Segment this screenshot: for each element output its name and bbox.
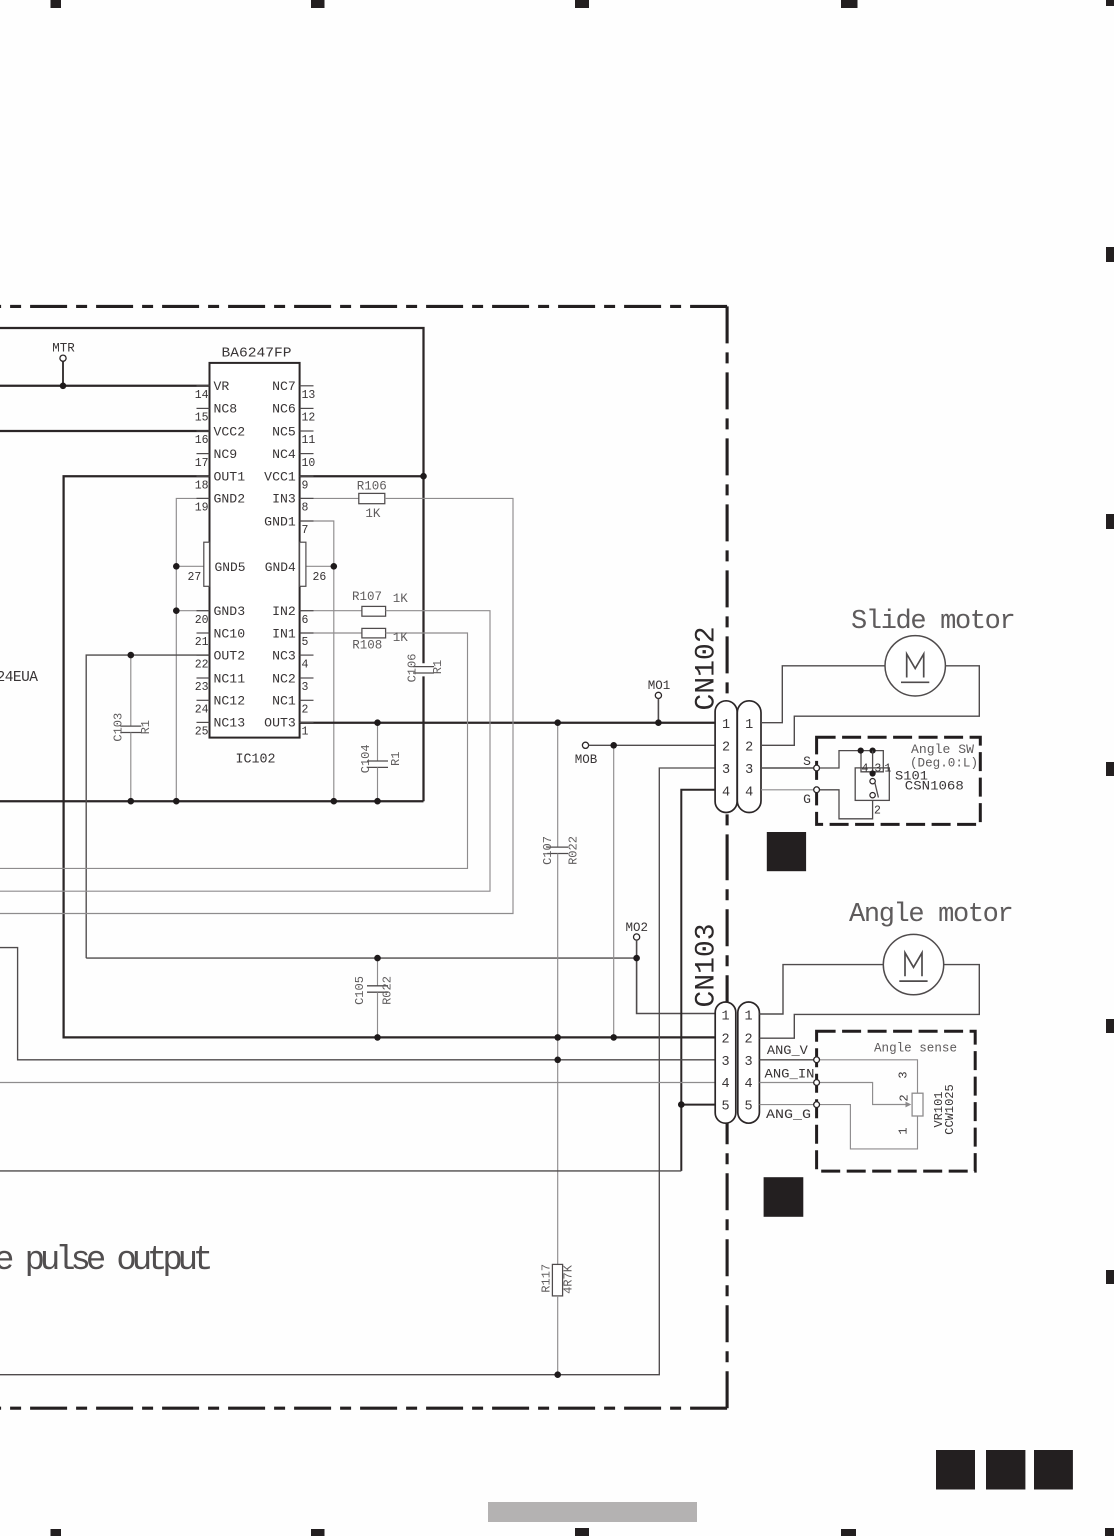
svg-text:R022: R022 [566,836,580,865]
svg-text:14: 14 [195,389,209,402]
junction C104 bottom on ground rail [374,798,381,805]
svg-text:2: 2 [874,805,881,818]
svg-text:R1: R1 [389,752,403,766]
wire MTR net from left edge to IC pin 14 VR [0,385,210,387]
svg-text:NC5: NC5 [272,424,296,439]
black marker square near CN103 [764,1177,804,1217]
registration mark right edge 4 [1106,1019,1114,1033]
svg-text:2: 2 [302,704,309,717]
dashed enclosure Angle sense [817,1031,976,1171]
junction C107 top on OUT3 [554,719,561,726]
pin stub 15 NC8 [197,407,210,409]
wire C106 bottom to ground rail [422,676,424,801]
svg-text:C107: C107 [541,836,555,865]
motor M102 angle motor symbol [883,934,943,994]
svg-text:1: 1 [896,1127,910,1134]
wire CN102 pin 4 net down to CN103 pin 5 [681,790,715,1171]
pin stub 8 IN3 [300,497,314,499]
node ANG_IN terminal circle [814,1080,820,1086]
wire OUT2 net: IC pin 22 left and down [86,655,209,958]
svg-text:1: 1 [722,1009,730,1024]
wire MO2 stub [636,940,638,958]
svg-text:7: 7 [302,524,309,537]
motor M101 slide motor symbol [885,636,945,696]
svg-text:4: 4 [745,785,753,800]
svg-text:IN3: IN3 [272,492,296,507]
wire MTR stub [62,361,64,386]
pin stub 24 NC12 [197,699,210,701]
svg-text:NC11: NC11 [214,671,246,686]
pin stub 11 NC5 [300,430,314,432]
svg-text:10: 10 [302,457,316,470]
connector CN102 left shell [715,701,737,813]
svg-text:3: 3 [874,763,881,776]
junction MO2 on OUT2 run [633,955,640,962]
registration mark top 3 [575,0,589,8]
connector CN103 left shell [715,1002,736,1123]
wire OUT2 net horizontal run to MO2 [86,957,636,959]
wire GND2/GND5/GND3 vertical to ground rail [176,498,209,801]
svg-text:NC1: NC1 [272,694,296,709]
dash-dot boundary of motor drive unit [0,305,727,308]
svg-text:20: 20 [195,614,209,627]
registration mark right edge 2 [1106,514,1114,529]
registration mark right edge 3 [1106,762,1114,776]
svg-text:1: 1 [884,763,891,776]
svg-text:22: 22 [195,658,209,671]
capacitor C104 [367,723,388,802]
svg-text:e pulse output: e pulse output [0,1242,210,1280]
svg-text:IN1: IN1 [272,626,296,641]
svg-text:13: 13 [302,389,316,402]
svg-text:6: 6 [302,614,309,627]
junction MOB vertical on OUT1 [610,1034,617,1041]
wire CN103 pin4 to ANG_IN terminal [759,1082,816,1084]
wire OUT1 net: IC pin 18 left, down, and across to CN103 pin 2 [64,476,716,1037]
wire S terminal into switch [817,751,884,772]
svg-text:4: 4 [722,785,730,800]
svg-text:OUT1: OUT1 [214,470,246,485]
wire ANG_G to potentiometer pin 1 [817,1105,918,1149]
svg-text:R106: R106 [357,479,387,493]
wire bottom-left rail from pin4 net [0,1170,681,1172]
wire OUT2 net down to CN103 pin 1 [637,958,716,1013]
svg-text:NC9: NC9 [214,447,238,462]
junction pin5 branch [678,1101,685,1108]
wire GND5 pin 27 stub [176,565,204,567]
svg-text:18: 18 [195,479,209,492]
junction R117 bottom on pin3 rail [554,1371,561,1378]
pin stub 1 OUT3 [300,721,314,723]
junction C105 bottom on OUT1 [374,1034,381,1041]
registration mark bottom 1 [51,1529,62,1536]
wire CN102 pin4 to G terminal [761,789,817,791]
pin stub 9 VCC1 [300,475,314,477]
black marker square bottom 1 [936,1450,975,1490]
svg-text:CSN1068: CSN1068 [905,780,964,794]
node G terminal circle [814,787,820,793]
pin stub 5 IN1 [300,632,314,634]
pin stub 19 GND2 [197,497,210,499]
svg-text:VCC1: VCC1 [264,470,296,485]
svg-text:C104: C104 [359,744,373,773]
pin stub 3 NC2 [300,677,314,679]
wire CN102 pin3 to S terminal [761,767,817,769]
svg-text:16: 16 [195,434,209,447]
pin stub 6 IN2 [300,610,314,612]
svg-text:2: 2 [722,1033,730,1048]
wire VCC2 from left edge to IC pin 16 [0,430,210,432]
wire CN102 pin 3 net down to bottom rail [0,768,715,1375]
registration mark bottom 2 [311,1529,325,1536]
wire CN102 pin1 to slide motor left [761,666,885,723]
svg-text:12: 12 [302,412,316,425]
wire G terminal to switch contact 2 [817,790,873,819]
IC102 heat tab pin 27 GND5 [204,542,210,586]
switch lever [875,783,879,798]
registration mark top 1 [51,0,62,8]
svg-text:MO1: MO1 [648,679,671,693]
connector CN103 right shell [738,1002,760,1123]
svg-text:S: S [803,754,811,769]
svg-text:CN102: CN102 [691,626,722,710]
junction GND4 on gnd vertical [331,563,338,570]
pin stub 21 NC10 [197,632,210,634]
svg-text:ANG_IN: ANG_IN [765,1066,815,1081]
pin stub 14 VR [197,385,210,387]
svg-text:G: G [803,792,811,807]
wire CN103 pin3 to ANG_V terminal [759,1059,816,1061]
pin stub 17 NC9 [197,453,210,455]
wire ANG_IN to wiper arrow [817,1083,907,1105]
svg-text:5: 5 [722,1099,730,1114]
junction VCC1 pin9 / C106 vertical [420,473,427,480]
svg-text:21: 21 [195,636,209,649]
switch S101 frame [855,768,889,801]
svg-text:C105: C105 [353,976,367,1005]
junction GND1 vertical on ground rail [331,798,338,805]
svg-text:1K: 1K [393,592,409,606]
pin stub 20 GND3 [197,610,210,612]
svg-text:23: 23 [195,681,209,694]
svg-text:NC7: NC7 [272,379,296,394]
svg-text:R107: R107 [352,590,382,604]
junction C107 line on ANG_V [554,1057,561,1064]
wire switch common drop [872,751,874,774]
svg-text:4: 4 [722,1077,730,1092]
pin stub 25 NC13 [197,721,210,723]
black marker square bottom 3 [1034,1450,1073,1490]
pin stub 13 NC7 [300,385,314,387]
dashed enclosure Angle SW [817,737,981,824]
junction MO1 on OUT3 [655,719,662,726]
svg-text:2: 2 [722,741,730,756]
svg-text:27: 27 [188,571,202,584]
junction MTR on VR wire [60,383,67,390]
svg-text:R117: R117 [540,1264,554,1293]
svg-text:NC2: NC2 [272,671,296,686]
svg-text:19: 19 [195,502,209,515]
svg-text:5: 5 [302,636,309,649]
node MO2 terminal [634,934,640,940]
registration mark right edge 5 [1106,1270,1114,1284]
node MO1 terminal [655,692,661,698]
svg-text:2: 2 [745,1033,753,1048]
registration mark top right corner [1106,0,1114,6]
pin stub 4 NC3 [300,654,314,656]
svg-text:NC10: NC10 [214,626,246,641]
svg-text:CCW1025: CCW1025 [943,1084,957,1134]
junction C103 top on OUT2 [128,652,135,659]
switch movable contact circles [870,779,875,784]
junction C107 line on OUT1 [554,1034,561,1041]
wire VCC1 pin 9 stub to vertical [300,475,424,477]
pin stub 22 OUT2 [197,654,210,656]
pin stub 18 OUT1 [197,475,210,477]
svg-text:R108: R108 [352,639,382,653]
svg-text:Angle motor: Angle motor [849,900,1012,930]
junction MOB branch [610,742,617,749]
svg-text:NC13: NC13 [214,716,246,731]
junction C104 top on OUT3 [374,719,381,726]
pin stub 2 NC1 [300,699,314,701]
wire ANG_V net from left edge to CN103 pin 3 [0,948,715,1060]
junction C105 top on OUT2 [374,955,381,962]
svg-text:MOB: MOB [575,753,598,767]
registration mark top 4 [841,0,858,8]
wire CN103 pin2 to angle motor right [759,965,979,1039]
svg-text:3: 3 [745,1055,753,1070]
svg-text:GND1: GND1 [264,514,296,529]
wire ANG_V to potentiometer pin 3 [817,1060,918,1093]
svg-text:MO2: MO2 [626,921,649,935]
svg-text:(Deg.0:L): (Deg.0:L) [910,755,978,770]
node S terminal circle [814,765,820,771]
svg-text:ANG_G: ANG_G [766,1107,811,1122]
svg-text:4R7K: 4R7K [562,1264,576,1294]
resistor R107 with IN2 wire [0,606,490,891]
junction switch contact 4 [858,748,864,754]
wire CN103 pin5 to ANG_G terminal [759,1104,816,1106]
svg-text:GND4: GND4 [265,560,296,575]
junction switch contact 3 [870,748,876,754]
svg-text:NC4: NC4 [272,447,296,462]
wire CN103 pin 5 branch [681,1104,715,1106]
node ANG_G terminal circle [814,1102,820,1108]
svg-text:24: 24 [195,704,209,717]
pin stub 10 NC4 [300,453,314,455]
svg-text:1: 1 [722,718,730,733]
svg-text:1K: 1K [365,507,381,521]
gray label bar bottom [488,1502,697,1522]
capacitor C103 [120,655,141,801]
registration mark bottom 3 [575,1528,589,1536]
svg-text:VCC2: VCC2 [214,424,246,439]
svg-text:GND2: GND2 [214,492,246,507]
wire OUT3 net: IC pin 1 across to CN102 pin 1 [300,722,715,724]
wire MOB to CN102 pin 2 [589,744,716,746]
svg-text:17: 17 [195,457,209,470]
svg-text:R022: R022 [380,976,394,1005]
resistor R106 with IN3 wire [0,493,513,913]
pin stub 16 VCC2 [197,430,210,432]
registration mark right edge 1 [1106,247,1114,262]
potentiometer VR101 body [912,1093,923,1116]
svg-text:R1: R1 [139,720,153,734]
svg-text:9: 9 [302,479,309,492]
svg-text:3: 3 [745,763,753,778]
svg-text:4: 4 [745,1077,753,1092]
svg-text:Angle sense: Angle sense [874,1041,957,1056]
svg-text:25: 25 [195,726,209,739]
svg-text:C106: C106 [406,654,420,683]
capacitor C107 / resistor R117 chain [547,723,568,1375]
wire MO1 stub [657,699,659,723]
wire CN103 pin1 to angle motor left [759,965,883,1014]
svg-text:NC12: NC12 [214,694,246,709]
svg-text:11: 11 [302,434,316,447]
op-amp/driver IC102 BA6247FP body [210,363,300,738]
svg-text:BA6247FP: BA6247FP [222,347,292,362]
registration mark bottom 4 [841,1529,856,1536]
svg-text:Slide motor: Slide motor [851,607,1014,637]
svg-text:CN103: CN103 [691,923,722,1007]
svg-text:1: 1 [302,726,309,739]
wire GND3 pin 20 stub [176,610,209,612]
svg-text:24EUA: 24EUA [0,670,38,686]
svg-text:NC3: NC3 [272,648,296,663]
svg-text:3: 3 [722,1055,730,1070]
junction switch common [870,770,876,776]
svg-text:OUT3: OUT3 [264,716,296,731]
pin stub 7 GND1 [300,520,314,522]
junction GND3 on gnd vertical [173,607,180,614]
svg-text:8: 8 [302,502,309,515]
svg-text:2: 2 [745,741,753,756]
svg-text:1: 1 [745,1009,753,1024]
connector CN102 right shell [737,701,761,813]
svg-text:2: 2 [897,1094,911,1101]
svg-text:C103: C103 [111,713,125,742]
wire MOB vertical down to OUT1 [613,745,615,1037]
junction gnd vertical on ground rail [173,798,180,805]
wire VCC net from left edge to VCC1 (via C106 branch top) [0,328,424,663]
black marker square bottom 2 [986,1450,1025,1490]
wire CN102 pin2 to slide motor right [761,666,979,746]
svg-text:NC8: NC8 [214,402,238,417]
svg-text:4: 4 [862,763,869,776]
svg-text:1K: 1K [393,631,409,645]
wire GND4 pin 26 stub [306,565,334,567]
svg-text:OUT2: OUT2 [214,648,246,663]
wire ANG_IN net from left edge to CN103 pin 4 [0,1082,715,1084]
svg-text:4: 4 [302,658,309,671]
svg-text:26: 26 [313,571,327,584]
registration mark bottom right corner [1105,1528,1114,1536]
node MTR terminal circle [60,355,66,361]
pin stub 12 NC6 [300,407,314,409]
svg-text:R1: R1 [431,660,445,674]
wire GND1/GND4 vertical to ground rail [300,521,334,801]
svg-text:NC6: NC6 [272,402,296,417]
registration mark top 2 [311,0,325,8]
svg-text:IC102: IC102 [236,753,276,768]
svg-text:5: 5 [745,1099,753,1114]
capacitor C106 [413,667,434,673]
svg-text:GND5: GND5 [215,560,246,575]
svg-text:15: 15 [195,412,209,425]
svg-text:ANG_V: ANG_V [767,1043,808,1058]
black marker square near CN102 [767,832,806,871]
node ANG_V terminal circle [814,1057,820,1063]
svg-text:3: 3 [722,763,730,778]
svg-text:IN2: IN2 [272,604,296,619]
node MOB terminal [582,742,588,748]
svg-text:MTR: MTR [52,342,75,356]
capacitor C105 [367,958,388,1037]
svg-text:VR: VR [214,379,230,394]
wire ground rail [0,800,424,802]
resistor R108 with IN1 wire [0,628,468,868]
svg-text:1: 1 [745,718,753,733]
svg-text:3: 3 [302,681,309,694]
svg-text:GND3: GND3 [214,604,246,619]
pin stub 23 NC11 [197,677,210,679]
junction GND5 on gnd vertical [173,563,180,570]
svg-text:3: 3 [896,1071,910,1078]
IC102 heat tab pin 26 GND4 [300,542,306,586]
wiper arrowhead [906,1102,912,1108]
junction C103 bottom on ground rail [128,798,135,805]
